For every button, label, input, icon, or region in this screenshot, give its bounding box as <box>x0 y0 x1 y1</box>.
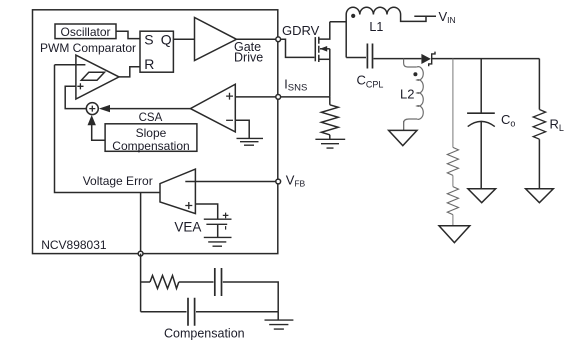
svg-text:GDRV: GDRV <box>282 23 320 38</box>
wire compensation lower branch left <box>141 311 187 313</box>
wire CSA output to summing node <box>110 108 190 110</box>
wire Co to ground <box>480 122 482 189</box>
minus lead VEA <box>185 181 195 183</box>
GDRV pin <box>276 37 281 42</box>
svg-text:Compensation: Compensation <box>112 139 189 153</box>
svg-text:R: R <box>144 56 154 72</box>
coupling capacitor CCPL <box>367 44 372 69</box>
wire CSA minus input to ground <box>235 120 249 138</box>
wire compensation pin down <box>140 254 142 312</box>
wire right leg to ground <box>277 312 279 320</box>
wire R2 to ground <box>452 215 454 226</box>
wire VEA minus input to VFB pin <box>195 181 277 183</box>
svg-text:VEA: VEA <box>174 220 201 235</box>
plus input wire PWM comparator from summing node <box>65 86 86 108</box>
minus sign CSA <box>226 119 233 121</box>
wire RC to CC <box>179 281 214 283</box>
summing node <box>86 103 98 115</box>
svg-text:S: S <box>144 32 153 48</box>
plus sign PWM comparator <box>77 83 83 89</box>
compensation pin node <box>138 251 143 256</box>
plus sign VEA <box>185 202 192 209</box>
CSA amplifier <box>190 84 235 132</box>
wire output node to Co <box>480 59 482 114</box>
reference battery <box>204 219 232 224</box>
MOSFET Q1 body stub with arrow <box>320 48 330 50</box>
wire source node to sense resistor <box>329 97 331 105</box>
PWM comparator triangle <box>76 55 119 99</box>
ground VEA reference <box>204 237 232 246</box>
minus tick reference <box>225 226 227 230</box>
svg-text:Compensation: Compensation <box>164 327 245 341</box>
svg-text:PWM Comparator: PWM Comparator <box>40 41 136 55</box>
wire output node to feedback divider <box>452 59 454 148</box>
sense resistor <box>321 105 338 135</box>
minus input lead PWM comparator <box>55 64 86 66</box>
ground CSA <box>237 138 264 145</box>
wire diode cathode to output node <box>432 58 539 60</box>
wire Q output to gate drive <box>173 38 194 40</box>
wire VEA output to PWM comparator minus input <box>55 65 161 193</box>
wire L2 to ground <box>403 121 405 130</box>
wire output node to RL <box>538 59 540 110</box>
voltage error amplifier VEA <box>160 169 195 214</box>
ISNS pin <box>276 95 281 100</box>
diode D1 <box>421 54 431 64</box>
ground arrow RL <box>526 189 554 203</box>
wire VEA output branch to compensation pin <box>140 193 142 254</box>
VFB pin <box>276 179 281 184</box>
wire L2 tap <box>404 59 417 67</box>
wire CSA plus input to ISNS pin <box>235 96 277 98</box>
svg-text:Drive: Drive <box>234 51 263 65</box>
wire CCPL to diode anode <box>374 58 422 60</box>
wire compensation upper branch left <box>141 281 150 283</box>
svg-text:NCV898031: NCV898031 <box>41 238 107 252</box>
wire slope compensation to summing node <box>92 125 105 141</box>
MOSFET Q1 gate bar <box>314 37 316 61</box>
compensation capacitor CP <box>188 298 195 326</box>
load resistor RL <box>533 110 545 140</box>
compensation capacitor CC <box>215 268 222 296</box>
svg-text:Voltage Error: Voltage Error <box>83 174 153 188</box>
ground compensation <box>265 320 294 329</box>
phase dot L1 <box>351 14 355 18</box>
wire reference to ground <box>217 224 219 237</box>
inductor L1 <box>346 7 400 14</box>
svg-text:Q: Q <box>161 32 172 48</box>
wire L1 right terminal to VIN <box>401 15 426 22</box>
VIN terminal bar <box>414 15 436 17</box>
wire switch node vertical (L1 left leg) <box>345 15 347 58</box>
wire divider middle <box>452 175 454 186</box>
feedback resistor R2 <box>447 187 458 215</box>
wire ISNS pin to source node <box>281 96 330 98</box>
ground arrow Co <box>468 189 496 203</box>
feedback resistor R1 <box>447 147 458 175</box>
ramp parallelogram inside PWM comparator <box>81 72 104 80</box>
oscillator block <box>55 24 116 39</box>
output capacitor Co <box>467 112 495 114</box>
wire drain to switch node <box>330 21 346 23</box>
wire GDRV pin to MOSFET gate <box>281 39 315 57</box>
diode D1 schottky cathode <box>429 52 435 67</box>
compensation resistor RC <box>150 276 179 289</box>
SR latch U1 <box>140 31 173 72</box>
gate drive buffer <box>195 18 237 61</box>
svg-text:CSA: CSA <box>139 112 163 124</box>
svg-text:L2: L2 <box>400 87 414 102</box>
svg-text:Oscillator: Oscillator <box>60 25 110 39</box>
plus sign CSA <box>226 93 233 100</box>
ground arrow divider <box>439 226 470 243</box>
wire VEA plus input to reference <box>195 204 217 219</box>
wire oscillator to S input <box>116 31 140 38</box>
svg-text:L1: L1 <box>369 20 383 34</box>
wire sense resistor to ground <box>329 135 331 139</box>
phase dot L2 <box>413 72 417 76</box>
wire PWM output to R input <box>119 67 140 77</box>
plus sign reference <box>223 213 229 219</box>
wire RL to ground <box>538 139 540 189</box>
wire MOSFET source down to ISNS node <box>329 49 331 97</box>
slope compensation block <box>105 124 197 152</box>
arrowhead into summing node <box>99 105 110 112</box>
ground arrow L2 <box>389 130 417 145</box>
wire CP to right leg <box>196 311 278 313</box>
inductor L2 <box>404 67 424 131</box>
wire gate drive output to GDRV pin <box>237 38 278 40</box>
wire switch node to coupling capacitor <box>346 57 366 59</box>
wire CC to right leg <box>223 282 278 312</box>
IC boundary box NCV898031 <box>33 10 278 254</box>
MOSFET Q1 source stub <box>319 58 330 60</box>
MOSFET Q1 drain stub <box>319 22 330 39</box>
MOSFET Q1 channel bar dashed <box>318 37 320 62</box>
arrowhead up into summing node <box>88 115 96 125</box>
ground sense resistor <box>315 139 345 148</box>
